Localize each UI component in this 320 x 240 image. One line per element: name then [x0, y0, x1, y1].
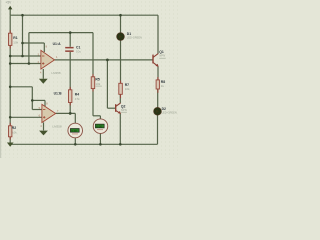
ground under U1:B — [39, 131, 48, 136]
wire staircase horizontal y=86.8 — [10, 86, 32, 88]
resistor R8 — [156, 80, 165, 89]
svg-text:+5V: +5V — [6, 1, 13, 5]
wire x=28.9 column — [28, 33, 30, 64]
LED D2 — [154, 107, 177, 115]
node feedback C1 — [69, 31, 72, 34]
wire bottom rail — [10, 143, 157, 145]
transistor Q1 — [153, 50, 165, 67]
svg-text:NPN: NPN — [159, 53, 165, 57]
wire U1:A pin8 stub — [43, 43, 45, 52]
node top input x22 — [21, 55, 24, 58]
wire Q1 emitter column — [157, 67, 159, 80]
wire x=22.5 column from rail — [22, 15, 24, 56]
node top input left — [9, 55, 12, 58]
wire U1:A pin4 stub — [42, 69, 44, 79]
wire U1:B output — [56, 112, 76, 114]
svg-text:R7: R7 — [125, 83, 129, 87]
wire meter1 top lead — [74, 113, 76, 123]
meter 1 (ammeter) — [68, 123, 83, 138]
resistor R7 — [119, 83, 130, 94]
op-amp U1:A — [38, 42, 61, 75]
node meter2 bottom — [99, 143, 102, 146]
wire U1:B pin4 stub — [43, 122, 45, 130]
wire left column bottom (R2 to ground) — [9, 137, 11, 143]
wire meter2 bottom lead — [99, 133, 101, 144]
wire U1:A pin8 horizontal — [23, 42, 45, 44]
capacitor C1 — [65, 46, 81, 54]
svg-text:R8: R8 — [161, 80, 165, 84]
resistor pins — [10, 30, 158, 139]
wire x=107.4 column — [106, 60, 108, 108]
wire R8 to D2 — [157, 89, 159, 108]
resistor R2 — [9, 126, 18, 137]
wire meter2 top lead — [99, 116, 101, 120]
wire Q2 emitter column — [119, 113, 121, 144]
resistor R1 — [9, 33, 19, 45]
wire U1:A top input — [10, 55, 41, 57]
svg-text:10k: 10k — [13, 41, 18, 45]
wire feedback y=32.6 — [29, 32, 93, 34]
meter 2 (ammeter) — [93, 119, 108, 134]
wire U1:A output — [54, 59, 153, 61]
node U1B output R4 — [69, 112, 72, 115]
wire U1:B bottom input — [10, 116, 42, 118]
resistor R5 — [91, 77, 101, 89]
wire Q2 base — [107, 107, 115, 109]
svg-text:C1: C1 — [76, 46, 80, 50]
node U1B pin8 tee — [31, 99, 34, 102]
LED D1 — [117, 32, 142, 40]
node rail-D1 — [119, 14, 122, 17]
op-amp U1:B — [39, 92, 62, 129]
wire left column middle (R1 to R2) — [9, 45, 11, 125]
svg-text:D1: D1 — [127, 32, 131, 36]
node bottom input x28.9 — [28, 62, 31, 65]
wire R5 to meter2 — [93, 115, 100, 117]
svg-text:U1:B: U1:B — [54, 92, 62, 96]
svg-text:10k: 10k — [12, 130, 17, 134]
svg-text:10k: 10k — [125, 87, 130, 91]
resistor R4 — [69, 90, 81, 103]
svg-text:LM358: LM358 — [52, 125, 62, 129]
wire R5 bottom lead — [92, 89, 94, 116]
wire C1 to R4 — [69, 52, 71, 90]
svg-text:0.00: 0.00 — [96, 125, 102, 129]
node Q2 emitter bottom — [119, 143, 122, 146]
node staircase left — [9, 86, 12, 89]
svg-text:R1: R1 — [13, 36, 17, 40]
wire D1 top lead — [120, 15, 122, 33]
node meter1 bottom — [74, 143, 77, 146]
wire R4 bottom lead — [69, 103, 71, 114]
svg-text:47k: 47k — [75, 97, 80, 101]
ground bottom left — [7, 143, 14, 147]
node output to Q2 — [106, 59, 109, 62]
svg-text:10u: 10u — [76, 49, 81, 53]
ground under U1:A — [39, 79, 48, 84]
node pin8 tap — [21, 42, 24, 45]
wire U1:A bottom input — [10, 63, 41, 65]
wire D2 bottom lead — [157, 115, 159, 144]
svg-text:LM358: LM358 — [51, 71, 61, 75]
svg-text:0.00: 0.00 — [71, 129, 77, 133]
wire U1:B pin8 horizontal — [32, 99, 45, 101]
wire power stem — [9, 9, 11, 15]
window edge left — [0, 0, 1, 158]
wire left column top (rail to R1) — [9, 15, 11, 33]
svg-text:R4: R4 — [75, 92, 79, 96]
node bottom input left — [9, 62, 12, 65]
wire U1:B top input — [32, 109, 42, 111]
wire R7 to Q2 collector — [119, 94, 121, 103]
wire U1:B pin8 stub — [44, 100, 46, 106]
svg-text:10k: 10k — [95, 82, 100, 86]
svg-text:R5: R5 — [95, 77, 99, 81]
node rail-x22 — [21, 14, 24, 17]
power terminal +5V — [6, 1, 13, 10]
svg-text:R2: R2 — [12, 126, 16, 130]
svg-text:NPN: NPN — [121, 108, 127, 112]
wire x=93 column to R5 — [92, 33, 94, 77]
node U1B bottom input left — [9, 116, 12, 119]
wire right column to Q1 collector — [157, 15, 159, 54]
junction dots — [9, 14, 122, 146]
svg-text:D2: D2 — [162, 107, 166, 111]
svg-text:1k: 1k — [161, 84, 165, 88]
wire C1 top lead — [69, 33, 71, 47]
transistor Q2 — [116, 103, 127, 114]
wire staircase vertical x=32.3 — [31, 87, 33, 110]
wire top +5V rail — [10, 14, 158, 16]
svg-text:U1:A: U1:A — [53, 42, 61, 46]
wire meter1 bottom lead — [74, 138, 76, 145]
wire D1 to R7 — [120, 40, 122, 83]
placeholder text marks — [95, 58, 165, 113]
